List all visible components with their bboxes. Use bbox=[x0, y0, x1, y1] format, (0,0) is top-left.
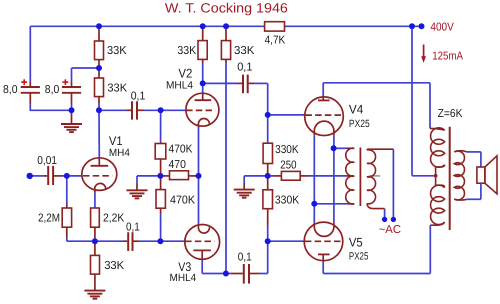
svg-text:0,1: 0,1 bbox=[238, 251, 252, 263]
svg-text:W. T. Cocking 1946: W. T. Cocking 1946 bbox=[165, 0, 288, 15]
svg-text:33K: 33K bbox=[104, 260, 124, 272]
svg-text:33K: 33K bbox=[107, 82, 127, 94]
svg-text:470: 470 bbox=[169, 159, 186, 171]
svg-text:0,1: 0,1 bbox=[131, 90, 146, 102]
svg-text:125mA: 125mA bbox=[432, 51, 463, 63]
svg-text:2,2M: 2,2M bbox=[38, 213, 60, 225]
svg-text:250: 250 bbox=[280, 159, 296, 171]
svg-text:V1: V1 bbox=[109, 134, 123, 148]
svg-text:470K: 470K bbox=[169, 143, 193, 155]
svg-text:0,1: 0,1 bbox=[126, 221, 140, 233]
svg-text:330K: 330K bbox=[275, 144, 299, 156]
svg-text:MHL4: MHL4 bbox=[166, 79, 193, 91]
svg-text:33K: 33K bbox=[107, 45, 127, 57]
svg-text:33K: 33K bbox=[177, 45, 196, 57]
svg-text:400V: 400V bbox=[430, 21, 454, 33]
svg-text:Z=6K: Z=6K bbox=[438, 108, 463, 120]
svg-text:V5: V5 bbox=[349, 235, 363, 249]
svg-text:0,01: 0,01 bbox=[37, 155, 57, 167]
svg-text:PX25: PX25 bbox=[349, 251, 369, 263]
svg-text:PX25: PX25 bbox=[349, 118, 370, 130]
svg-text:V4: V4 bbox=[349, 103, 363, 117]
svg-text:~AC: ~AC bbox=[379, 224, 401, 236]
svg-text:8,0: 8,0 bbox=[3, 84, 18, 96]
svg-text:MH4: MH4 bbox=[109, 147, 130, 159]
svg-text:0,1: 0,1 bbox=[237, 61, 252, 73]
svg-text:470K: 470K bbox=[170, 194, 195, 206]
svg-text:MHL4: MHL4 bbox=[170, 272, 197, 284]
svg-text:33K: 33K bbox=[234, 45, 255, 57]
svg-text:8,0: 8,0 bbox=[45, 84, 60, 96]
svg-text:4,7K: 4,7K bbox=[265, 35, 286, 47]
svg-text:2,2K: 2,2K bbox=[103, 213, 125, 225]
svg-text:330K: 330K bbox=[275, 195, 300, 207]
